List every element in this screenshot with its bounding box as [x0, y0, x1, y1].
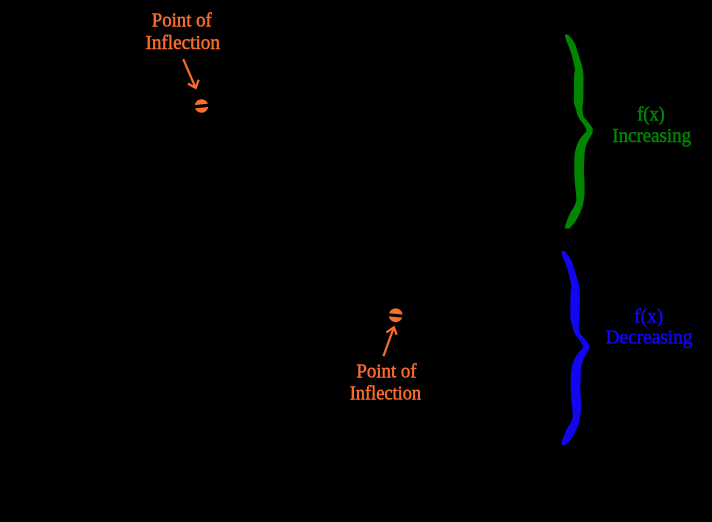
- svg-text:Inflection: Inflection: [350, 382, 421, 404]
- arrow to lower inflection point: [383, 327, 396, 356]
- arrow to upper inflection point: [183, 59, 199, 88]
- label: Point of Inflection (top): [145, 10, 220, 55]
- brace: f(x) increasing (green): [565, 35, 593, 229]
- svg-text:f(x): f(x): [634, 305, 663, 327]
- svg-text:Point of: Point of: [356, 361, 417, 383]
- node: lower inflection point: [388, 308, 404, 322]
- label: Point of Inflection (bottom): [350, 361, 421, 405]
- svg-text:Increasing: Increasing: [612, 125, 691, 147]
- svg-text:Inflection: Inflection: [145, 32, 220, 54]
- node: upper inflection point: [194, 99, 211, 113]
- label: f(x) Increasing: [612, 104, 691, 147]
- label: f(x) Decreasing: [606, 305, 693, 348]
- svg-text:f(x): f(x): [637, 104, 665, 126]
- svg-text:Decreasing: Decreasing: [606, 327, 693, 349]
- svg-text:Point of: Point of: [152, 10, 212, 32]
- brace: f(x) decreasing (blue): [561, 251, 589, 445]
